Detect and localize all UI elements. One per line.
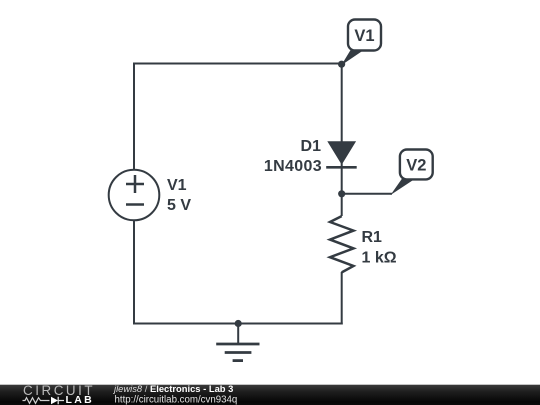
node V1 callout	[341, 20, 381, 66]
svg-text:1N4003: 1N4003	[264, 158, 322, 175]
svg-text:jlewis8 / Electronics - Lab 3: jlewis8 / Electronics - Lab 3	[112, 383, 233, 394]
resistor R1	[330, 216, 354, 272]
footer logo resistor squiggle	[23, 398, 50, 404]
wire diode top lead	[341, 63, 343, 144]
svg-text:V2: V2	[406, 157, 426, 175]
wire top horizontal	[134, 63, 342, 65]
voltage source V1	[109, 170, 160, 221]
junction dot ground	[235, 320, 242, 327]
label D1 1N4003	[264, 138, 322, 175]
wire resistor top lead	[341, 194, 343, 216]
node V2 callout	[391, 150, 433, 196]
svg-text:1 kΩ: 1 kΩ	[362, 250, 397, 267]
footer logo diode symbol	[51, 397, 58, 404]
wire bottom horizontal	[133, 323, 343, 325]
label V1 5 V	[167, 177, 191, 214]
footer bar	[0, 385, 540, 405]
ground	[216, 324, 259, 361]
label R1 1 kOhm	[362, 229, 397, 267]
wire diode bottom lead	[341, 163, 343, 195]
svg-text:5 V: 5 V	[167, 197, 191, 214]
svg-text:D1: D1	[301, 138, 322, 155]
wire left vertical lower	[133, 220, 135, 324]
wire right vertical lower	[341, 272, 343, 325]
diode D1	[326, 142, 357, 168]
svg-text:LAB: LAB	[66, 394, 94, 405]
wire left vertical upper	[133, 63, 135, 171]
wire node V2 horizontal	[342, 193, 392, 195]
junction dot top	[338, 61, 345, 68]
svg-text:V1: V1	[354, 27, 374, 45]
svg-text:R1: R1	[362, 229, 383, 246]
svg-text:V1: V1	[167, 177, 187, 194]
svg-text:http://circuitlab.com/cvn934q: http://circuitlab.com/cvn934q	[115, 395, 238, 405]
junction dot middle	[338, 190, 345, 197]
